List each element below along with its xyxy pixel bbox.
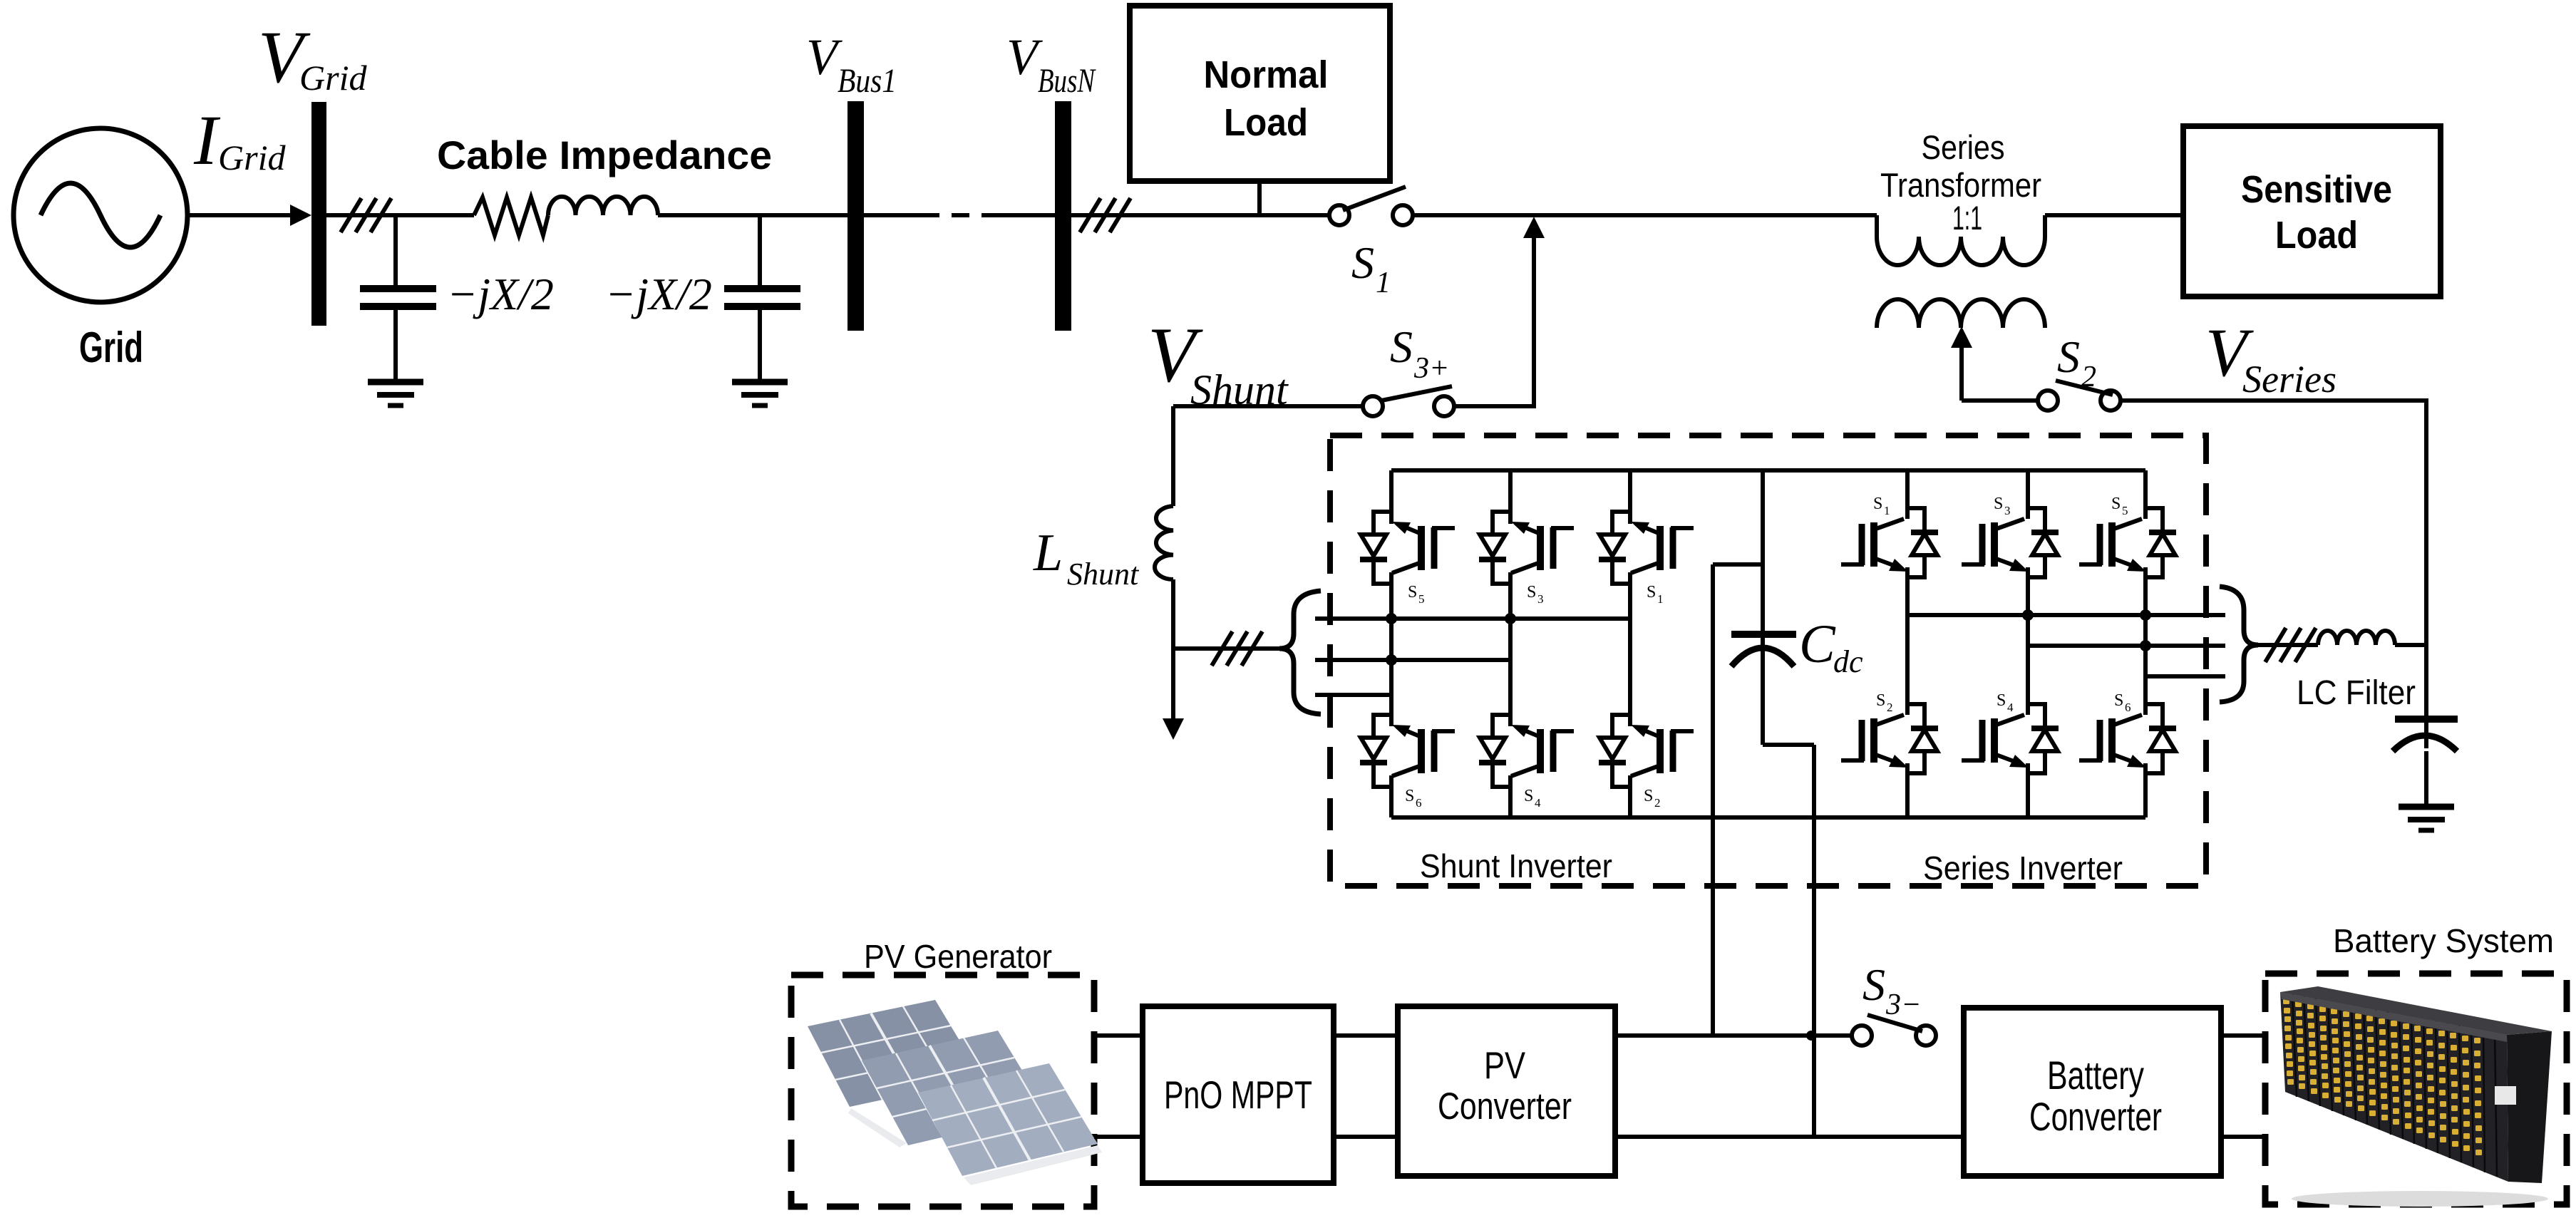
svg-text:1: 1: [1657, 592, 1664, 606]
arrow series injection into secondary: [1959, 339, 1964, 401]
series leg 2 wire segments: [2026, 470, 2030, 519]
svg-text:Battery: Battery: [2047, 1053, 2144, 1098]
svg-text:Converter: Converter: [2029, 1094, 2162, 1139]
wire L_Shunt down with arrow: [1171, 579, 1175, 718]
DC link wire A: [1713, 562, 1763, 567]
svg-text:Sensitive: Sensitive: [2241, 168, 2392, 211]
svg-text:2: 2: [1654, 796, 1661, 810]
svg-text:Series: Series: [1922, 128, 2005, 166]
three-phase slashes after V_BusN: [1080, 198, 1101, 232]
slashes series feeder: [2265, 628, 2286, 662]
bottom DC bus bottom section: [1094, 1135, 1143, 1139]
svg-text:S: S: [1390, 321, 1413, 372]
svg-text:3: 3: [2004, 504, 2011, 517]
AC source Grid circle: [14, 128, 187, 302]
wire shunt feeder: [1173, 646, 1280, 651]
svg-text:L: L: [1033, 524, 1063, 582]
capacitor C_dc: [1761, 470, 1765, 745]
svg-text:2: 2: [1887, 701, 1893, 714]
svg-text:S: S: [1647, 583, 1656, 602]
inductor L_Shunt: [1155, 506, 1173, 579]
wire LC inductor to corner: [2395, 643, 2426, 647]
resistor cable impedance: [474, 197, 548, 235]
IGBT S5 shunt top cell: [1360, 512, 1455, 584]
switch S2: [2038, 391, 2058, 411]
svg-text:Normal: Normal: [1204, 53, 1329, 96]
wire V_BusN to S1: [1071, 213, 1330, 217]
svg-text:1: 1: [1884, 504, 1890, 517]
svg-text:PnO MPPT: PnO MPPT: [1164, 1073, 1312, 1117]
series leg 1 wire segments: [1905, 470, 1910, 519]
shunt leg 1 wire segments: [1389, 470, 1393, 524]
wire S3+ to corner: [1454, 404, 1536, 408]
svg-text:PV: PV: [1484, 1045, 1526, 1087]
svg-text:1: 1: [1376, 267, 1391, 299]
svg-text:5: 5: [2122, 504, 2128, 517]
Normal Load box: [1130, 6, 1390, 181]
svg-text:Series Inverter: Series Inverter: [1923, 850, 2123, 887]
svg-text:Shunt Inverter: Shunt Inverter: [1420, 847, 1612, 884]
ground LC filter: [2399, 804, 2454, 810]
DC top rail: [1391, 468, 2145, 473]
bus bar V_BusN: [1055, 101, 1071, 331]
PV Converter box: [1398, 1006, 1615, 1176]
dashed box inverters: [1330, 435, 2206, 886]
wire and dashes V_Bus1 to V_BusN: [864, 213, 922, 217]
wire transformer to Sensitive Load: [2045, 213, 2183, 217]
bus bar V_Bus1: [847, 101, 864, 331]
shunt phase line 2: [1315, 658, 1510, 662]
svg-text:5: 5: [1418, 592, 1425, 606]
series phase line 3: [2145, 674, 2225, 678]
wire S1 to transformer: [1413, 213, 1877, 217]
svg-text:6: 6: [1416, 796, 1422, 810]
wire V_Shunt down: [1171, 406, 1175, 506]
IGBT S3 series top cell: [1962, 508, 2059, 577]
svg-text:S: S: [1863, 959, 1885, 1010]
capacitor -jX/2 left: [393, 215, 398, 285]
svg-text:BusN: BusN: [1038, 62, 1096, 100]
svg-text:C: C: [1799, 614, 1836, 674]
dashed box Battery System: [2265, 974, 2567, 1204]
brace shunt three-phase: [1279, 591, 1321, 714]
svg-text:Grid: Grid: [79, 324, 143, 371]
three-phase slashes after V_Grid: [341, 198, 361, 232]
capacitor -jX/2 right: [758, 215, 762, 285]
wire V_Grid to resistor: [326, 213, 474, 217]
junction dots shunt phases: [1386, 613, 1397, 624]
IGBT S1 series top cell: [1841, 508, 1938, 577]
shunt phase line 3: [1315, 693, 1391, 697]
shunt leg 3 wire segments: [1628, 470, 1632, 524]
wire V_Shunt to S3+: [1173, 404, 1363, 408]
svg-text:3+: 3+: [1413, 352, 1449, 385]
svg-text:6: 6: [2125, 701, 2131, 714]
switch S3-: [1852, 1026, 1872, 1046]
svg-text:S: S: [1351, 237, 1374, 288]
svg-text:S: S: [1876, 691, 1885, 710]
dashed box PV Generator: [791, 975, 1094, 1207]
svg-text:Shunt: Shunt: [1067, 557, 1140, 592]
series transformer secondary winding: [1877, 299, 2045, 328]
switch S1: [1329, 205, 1349, 225]
svg-text:S: S: [1873, 495, 1882, 513]
PV panels image: [808, 1000, 1102, 1185]
series phase line 1: [1907, 613, 2225, 617]
bus bar V_Grid: [311, 102, 326, 326]
svg-text:Converter: Converter: [1438, 1085, 1572, 1127]
switch S3+: [1363, 396, 1383, 416]
shunt phase line 1: [1315, 616, 1630, 621]
svg-text:Cable Impedance: Cable Impedance: [437, 133, 772, 177]
svg-text:S: S: [1527, 583, 1536, 602]
svg-text:−jX/2: −jX/2: [447, 269, 554, 319]
svg-text:S: S: [2111, 495, 2121, 513]
inductor LC filter: [2318, 631, 2395, 645]
svg-text:S: S: [1408, 583, 1417, 602]
series transformer primary winding: [1877, 215, 2045, 265]
IGBT S2 shunt bottom cell: [1599, 715, 1694, 787]
svg-text:LC Filter: LC Filter: [2297, 674, 2416, 712]
brace series three-phase: [2220, 587, 2258, 702]
svg-text:3: 3: [1537, 592, 1544, 606]
shunt leg 2 wire segments: [1508, 470, 1513, 524]
svg-text:Grid: Grid: [299, 58, 367, 98]
wire Normal Load drop: [1257, 181, 1262, 215]
svg-text:I: I: [193, 100, 221, 180]
svg-text:−jX/2: −jX/2: [605, 269, 712, 319]
svg-text:1:1: 1:1: [1952, 199, 1982, 237]
IGBT S3 shunt top cell: [1479, 512, 1574, 584]
capacitor LC filter: [2424, 645, 2428, 748]
series phase line 2: [2028, 644, 2225, 648]
svg-text:S: S: [2057, 331, 2080, 382]
svg-text:Grid: Grid: [218, 138, 286, 177]
series leg 3 wire segments: [2143, 470, 2148, 519]
svg-text:dc: dc: [1833, 644, 1863, 679]
svg-text:Load: Load: [1224, 101, 1308, 144]
IGBT S6 shunt bottom cell: [1360, 715, 1455, 787]
slashes shunt feeder: [1212, 631, 1232, 666]
Sensitive Load box: [2183, 126, 2441, 296]
IGBT S6 series bottom cell: [2079, 704, 2176, 773]
svg-text:Load: Load: [2275, 214, 2358, 257]
top DC bus bottom section: [1094, 1033, 1143, 1038]
wires to Battery System: [2221, 1033, 2267, 1038]
svg-text:Battery System: Battery System: [2333, 922, 2554, 959]
battery rack image: [2280, 986, 2552, 1207]
svg-text:Series: Series: [2242, 358, 2337, 401]
Battery Converter box: [1964, 1008, 2221, 1176]
svg-text:S: S: [1994, 495, 2003, 513]
svg-text:4: 4: [2007, 701, 2014, 714]
svg-text:S: S: [1405, 787, 1414, 805]
svg-text:4: 4: [1535, 796, 1541, 810]
IGBT S4 series bottom cell: [1962, 704, 2059, 773]
wire inductor to V_Bus1: [658, 213, 847, 217]
arrow shunt injection into main line: [1532, 231, 1536, 406]
wire arrow corner to S2: [1962, 398, 2039, 403]
svg-text:2: 2: [2081, 361, 2096, 393]
svg-text:3−: 3−: [1885, 989, 1921, 1021]
PnO MPPT box: [1143, 1006, 1334, 1183]
IGBT S4 shunt bottom cell: [1479, 715, 1574, 787]
junction dot wire B and top bus: [1806, 1031, 1816, 1041]
svg-text:S: S: [1644, 787, 1653, 805]
IGBT S5 series top cell: [2079, 508, 2176, 577]
DC bottom rail: [1391, 815, 2145, 820]
wire with arrow grid to bus: [188, 213, 298, 217]
svg-text:S: S: [2114, 691, 2123, 710]
ground below right capacitor: [732, 379, 788, 386]
wire S2 to V_Series corner: [2120, 398, 2426, 403]
ground below left capacitor: [368, 379, 423, 386]
IGBT S1 shunt top cell: [1599, 512, 1694, 584]
svg-text:S: S: [1524, 787, 1533, 805]
DC link wire B: [1763, 743, 1814, 747]
svg-text:PV Generator: PV Generator: [864, 938, 1052, 975]
IGBT S2 series bottom cell: [1841, 704, 1938, 773]
svg-text:S: S: [1997, 691, 2006, 710]
svg-text:Bus1: Bus1: [838, 62, 897, 100]
inductor cable impedance: [548, 197, 658, 215]
wire series feeder: [2254, 643, 2318, 647]
junction dots series phases: [2022, 609, 2034, 621]
